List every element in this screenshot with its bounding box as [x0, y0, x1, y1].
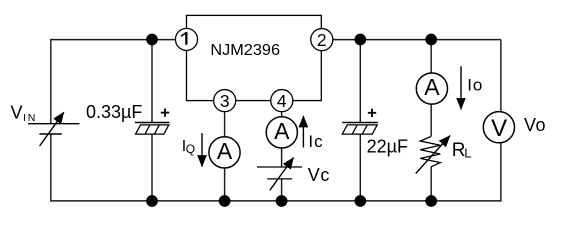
svg-text:NJM2396: NJM2396 — [210, 42, 280, 59]
wire left rail upper — [50, 39, 52, 124]
pin 1 — [175, 28, 197, 50]
svg-text:Q: Q — [186, 142, 195, 156]
node dot bottom rail at RL — [425, 195, 437, 207]
wire Vc to bottom rail — [281, 179, 283, 201]
wire ammeter A3 / RL branch — [430, 40, 432, 137]
arrow IQ down — [201, 133, 203, 167]
node dot bottom rail at A1 — [219, 195, 231, 207]
label VIN — [11, 102, 38, 124]
arrow Ic up — [302, 116, 304, 148]
resistor RL variable — [416, 136, 450, 174]
op-amp box U1 NJM2396 — [187, 15, 322, 100]
ammeter A1 — [209, 137, 240, 168]
pin 2 — [311, 29, 333, 51]
svg-text:Ic: Ic — [308, 132, 323, 151]
plus sign C1 — [161, 108, 169, 116]
svg-text:Io: Io — [467, 75, 483, 94]
wire top rail right — [332, 39, 501, 41]
node dot top rail at C1 — [146, 34, 158, 46]
wire capacitor C1 branch lower — [151, 134, 153, 201]
node dot bottom rail at C1 — [146, 195, 158, 207]
svg-text:V: V — [11, 102, 23, 122]
wire pin4 to ammeter A2 — [281, 101, 283, 168]
wire capacitor C2 branch lower — [359, 134, 361, 201]
node dot top rail at C2 — [354, 34, 366, 46]
label IQ — [182, 138, 195, 156]
svg-text:Vc: Vc — [308, 165, 330, 185]
pin 3 — [214, 90, 236, 112]
arrow Io down — [460, 66, 462, 109]
source Vc variable symbol — [257, 157, 302, 190]
capacitor C2 22uF — [342, 109, 408, 157]
ammeter A3 — [416, 73, 447, 104]
wire right rail — [500, 40, 502, 202]
voltmeter V1 — [483, 112, 514, 143]
wire left rail lower — [50, 134, 52, 201]
capacitor C1 0.33uF — [86, 102, 170, 134]
label RL — [452, 140, 472, 161]
svg-text:0.33µF: 0.33µF — [86, 102, 142, 122]
svg-text:2: 2 — [317, 30, 327, 50]
plus sign C2 — [368, 109, 376, 117]
node dot top rail at A3 — [425, 34, 437, 46]
svg-text:V: V — [491, 115, 507, 142]
wire bottom rail — [50, 200, 502, 202]
svg-text:Vo: Vo — [524, 115, 546, 135]
svg-text:L: L — [464, 146, 471, 161]
svg-text:4: 4 — [277, 91, 287, 111]
svg-text:A: A — [424, 74, 440, 100]
node dot bottom rail at C2 — [354, 195, 366, 207]
pin 4 — [271, 90, 293, 112]
source VIN variable symbol — [28, 112, 79, 146]
node dot bottom rail at Vc — [276, 195, 288, 207]
wire pin3 to ammeter A1 to bottom rail — [224, 101, 226, 202]
svg-text:IN: IN — [23, 112, 37, 124]
svg-text:A: A — [217, 138, 233, 164]
svg-text:22µF: 22µF — [367, 137, 408, 157]
svg-text:3: 3 — [220, 91, 230, 111]
wire top rail left — [51, 39, 176, 41]
wire RL to bottom rail — [430, 167, 432, 201]
wire capacitor C2 branch upper — [359, 40, 361, 123]
ammeter A2 — [266, 117, 297, 148]
wire capacitor C1 branch upper — [151, 40, 153, 123]
svg-text:A: A — [274, 118, 290, 144]
